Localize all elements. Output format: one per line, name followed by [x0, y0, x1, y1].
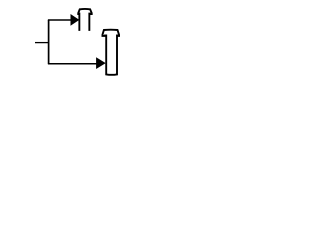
- wire bottom branch: [48, 63, 97, 65]
- pin symbol top (short nail): [78, 9, 91, 31]
- pin symbol bottom (long nail): [102, 30, 119, 75]
- wire vertical bus: [48, 20, 50, 64]
- wire input stub: [35, 42, 49, 44]
- background: [0, 0, 150, 82]
- arrowhead bottom: [96, 57, 106, 69]
- arrowhead top: [71, 14, 80, 26]
- wire top branch: [48, 19, 71, 21]
